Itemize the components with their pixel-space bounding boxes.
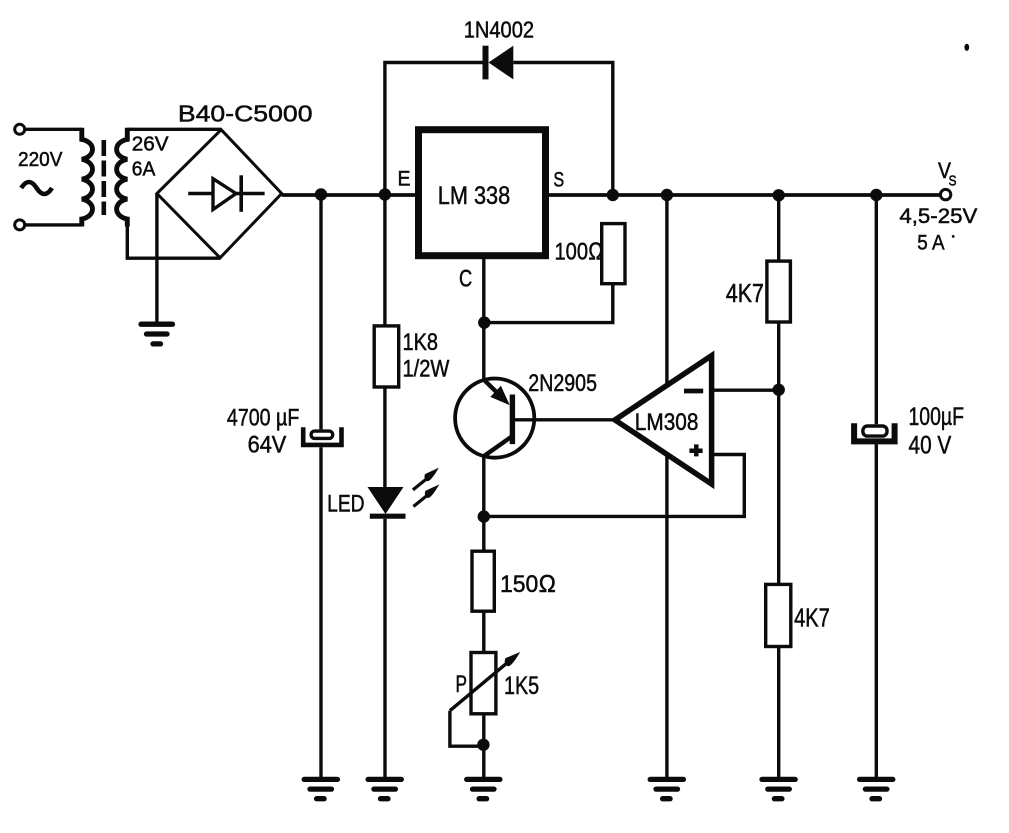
node dot wiper junction	[477, 739, 489, 751]
wire: rail to 4700uF	[319, 195, 322, 430]
op-amp minus sign	[684, 389, 703, 394]
ground (100uF)	[860, 779, 893, 798]
svg-text:4,5-25V: 4,5-25V	[899, 204, 978, 228]
ground (pot)	[467, 779, 500, 798]
wire: rail to ground via 666	[665, 195, 668, 777]
op-amp plus sign	[689, 444, 702, 456]
svg-text:E: E	[398, 168, 411, 191]
wire: 4K7 upper to 4K7 lower	[777, 322, 780, 584]
LED cathode bar	[370, 514, 406, 519]
svg-text:C: C	[459, 266, 472, 293]
transistor base bar	[510, 395, 515, 445]
output terminal Vs	[940, 189, 950, 199]
svg-text:26V: 26V	[132, 133, 169, 156]
svg-text:6A: 6A	[132, 158, 156, 181]
svg-text:S: S	[949, 173, 957, 189]
node dot rail at 100uF branch	[870, 189, 882, 201]
node dot C	[478, 316, 490, 328]
wire: base to op-amp	[515, 418, 615, 421]
potentiometer wiper arrow	[450, 663, 508, 711]
svg-text:S: S	[553, 169, 564, 192]
LED light arrow 2	[413, 484, 439, 506]
svg-text:1N4002: 1N4002	[464, 17, 534, 43]
bridge rectifier B1 diamond	[157, 130, 282, 258]
node dot rail at S/100ohm	[607, 189, 619, 201]
wire: 4700uF to ground	[319, 447, 322, 777]
wire: 100uF to ground	[875, 444, 878, 777]
resistor 100ohm	[602, 224, 625, 284]
wire: pot to ground	[482, 714, 485, 777]
bridge inner diode triangle	[213, 179, 236, 210]
ground (LED)	[368, 779, 401, 798]
svg-text:1K8: 1K8	[403, 329, 439, 356]
input terminal bottom	[15, 220, 25, 230]
LED light arrow 1	[413, 468, 439, 490]
svg-text:P: P	[456, 671, 468, 698]
resistor 1K8	[374, 326, 399, 387]
capacitor 100uF	[863, 426, 887, 436]
node dot divider	[773, 384, 785, 396]
wire: rail to 100uF	[875, 195, 878, 424]
svg-text:220V: 220V	[18, 148, 63, 171]
input terminal top	[15, 124, 25, 134]
resistor 4K7 lower	[766, 584, 791, 646]
wire: C pin down	[482, 259, 485, 323]
svg-text:4K7: 4K7	[726, 280, 764, 308]
LED triangle	[368, 487, 404, 514]
svg-text:4K7: 4K7	[794, 605, 830, 633]
op-amp U2 LM308 triangle	[615, 356, 712, 484]
svg-text:5 A: 5 A	[917, 230, 945, 254]
transformer core (dashed)	[102, 140, 107, 215]
transistor emitter with arrow	[484, 380, 498, 393]
svg-text:2N2905: 2N2905	[528, 370, 597, 397]
wire: secondary bottom to bridge	[127, 224, 220, 258]
wire: bottom terminal to primary	[25, 223, 82, 226]
ground (4700uF)	[304, 779, 337, 798]
node dot rail at 666 branch	[661, 189, 673, 201]
wire: main output rail right	[549, 193, 940, 197]
wire: C node down to transistor	[482, 323, 485, 381]
svg-text:B40-C5000: B40-C5000	[178, 101, 313, 127]
bridge inner diode cathode bar	[239, 175, 243, 212]
svg-text:LED: LED	[327, 490, 365, 517]
transistor Q1 circle	[455, 379, 534, 458]
svg-text:100Ω: 100Ω	[555, 239, 604, 266]
transformer T1 primary winding	[82, 128, 93, 227]
wire: C node to 100ohm bottom	[484, 284, 613, 323]
resistor 4K7 upper	[767, 261, 791, 322]
wire: op-amp minus to divider	[712, 389, 779, 392]
svg-text:150Ω: 150Ω	[500, 571, 556, 598]
wire: 4K7 lower to ground	[777, 647, 780, 778]
wire: 1K8 to LED	[383, 387, 386, 487]
node dot rail at 4K7 branch	[773, 189, 785, 201]
svg-text:LM 338: LM 338	[438, 182, 510, 210]
wiper return wire	[450, 711, 480, 747]
regulator U1 LM338 box	[419, 130, 546, 256]
transistor collector	[484, 437, 511, 456]
wire: bridge negative to ground	[155, 194, 158, 323]
speck artifact near 5A	[952, 235, 955, 238]
svg-text:40 V: 40 V	[909, 432, 952, 460]
bridge inner diode lead	[188, 192, 264, 195]
potentiometer P 1K5 body	[471, 653, 496, 714]
resistor 150ohm	[472, 551, 494, 611]
wire: 150ohm to pot	[482, 611, 485, 652]
wire: main output rail left	[282, 193, 415, 197]
node dot rail at 4700uF branch	[315, 188, 327, 200]
ground (transformer)	[141, 324, 173, 344]
wire: rail to 1K8	[383, 195, 386, 326]
transformer T1 secondary winding	[117, 128, 128, 227]
wire: secondary top to bridge	[127, 128, 221, 131]
svg-text:1K5: 1K5	[504, 672, 539, 700]
svg-text:1/2W: 1/2W	[403, 356, 450, 383]
speck artifact top right	[964, 44, 969, 51]
wire: bypass diode loop left	[385, 63, 483, 195]
AC sine symbol	[21, 182, 52, 194]
node dot rail at 1K8 branch	[379, 188, 391, 200]
wire: feedback + input	[484, 455, 745, 517]
capacitor 4700uF	[311, 431, 333, 438]
ground (4K7)	[762, 779, 795, 798]
node dot emitter/feedback	[478, 510, 490, 522]
wire: LED to ground	[383, 519, 386, 777]
wire: 4K7 upper branch	[777, 195, 780, 261]
svg-text:64V: 64V	[248, 431, 287, 458]
svg-text:100µF: 100µF	[909, 403, 965, 431]
diode 1N4002 triangle	[489, 46, 514, 80]
svg-text:4700 µF: 4700 µF	[227, 404, 300, 431]
wire: top terminal to primary	[25, 128, 82, 131]
ground (666 line)	[650, 779, 683, 798]
wire: bypass diode loop right	[513, 63, 613, 196]
wire: emitter node down	[482, 456, 485, 551]
svg-text:LM308: LM308	[635, 409, 699, 436]
diode 1N4002 cathode bar	[483, 46, 489, 80]
